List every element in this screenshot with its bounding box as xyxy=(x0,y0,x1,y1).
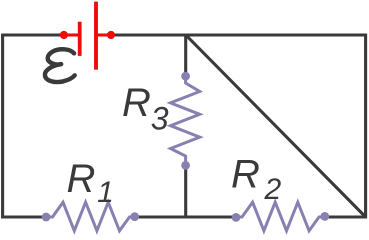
wire: bottom middle segment between R1 and R2 xyxy=(135,215,236,218)
wire: top right segment from battery to corner xyxy=(111,33,366,36)
node: R3 bottom terminal dot xyxy=(181,161,190,170)
battery terminal node left (red dot) xyxy=(60,31,68,39)
wire: bottom left segment to R1 xyxy=(1,215,46,218)
wire: vertical branch from top wire to R3 xyxy=(184,35,187,74)
svg-text:3: 3 xyxy=(151,100,169,136)
wire: bottom right segment from R2 to corner xyxy=(325,215,366,218)
battery short plate (negative terminal) xyxy=(78,22,82,56)
svg-text:R: R xyxy=(67,157,96,201)
node: R3 top terminal dot xyxy=(181,72,190,81)
svg-text:2: 2 xyxy=(264,173,282,206)
wire: top left segment to battery xyxy=(1,33,64,36)
node: R2 right terminal dot xyxy=(320,212,329,221)
node: R1 right terminal dot xyxy=(130,212,139,221)
svg-text:R: R xyxy=(122,81,151,125)
wire: vertical branch from R3 to bottom wire xyxy=(184,167,187,217)
battery lead left (red) xyxy=(64,33,80,36)
battery terminal node right (red dot) xyxy=(107,31,115,39)
wire: left side of loop xyxy=(1,35,4,219)
svg-text:1: 1 xyxy=(97,176,114,209)
resistor R2 zigzag xyxy=(236,202,325,231)
resistor R1 zigzag xyxy=(46,202,135,231)
battery lead right (red) xyxy=(96,33,111,36)
svg-text:R: R xyxy=(231,152,260,196)
wire: right side of loop xyxy=(364,34,367,219)
label: EMF symbol epsilon xyxy=(45,49,76,82)
node: R1 left terminal dot xyxy=(42,213,51,222)
node: R2 left terminal dot xyxy=(232,213,241,222)
battery tall plate (positive terminal) xyxy=(94,2,98,70)
resistor R3 zigzag xyxy=(171,76,200,165)
wire: diagonal from top node to bottom right corner xyxy=(186,35,366,217)
